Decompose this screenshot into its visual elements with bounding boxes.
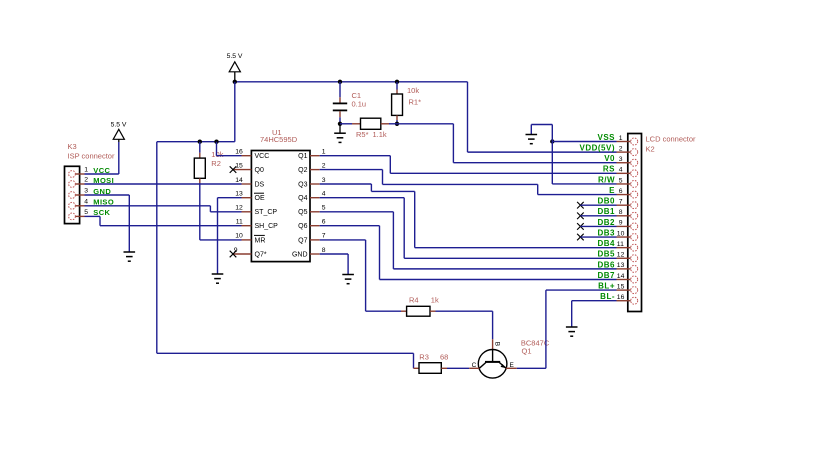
svg-text:K3: K3 [68, 142, 77, 151]
wire BL- to ground [572, 300, 617, 302]
svg-text:DB1: DB1 [597, 207, 615, 216]
wire R4 to base [430, 310, 436, 312]
IC U1 right pin stubs [310, 155, 320, 157]
svg-text:11: 11 [617, 241, 624, 248]
node junction C1/R5 [338, 122, 342, 126]
svg-text:OE: OE [255, 195, 265, 202]
wire Q4 to DB5 [320, 197, 405, 199]
ground U1 GND [342, 274, 354, 276]
svg-text:1: 1 [322, 149, 326, 156]
resistor R4 [407, 306, 430, 316]
wire OE to ground [218, 197, 242, 199]
svg-text:11: 11 [236, 219, 243, 226]
resistor R2 [194, 158, 205, 178]
wire MOSI to DS [85, 183, 242, 185]
svg-text:1.1k: 1.1k [373, 130, 387, 139]
svg-text:Q4: Q4 [298, 195, 307, 202]
svg-text:10: 10 [617, 230, 625, 237]
node junction C1 top [338, 80, 342, 84]
capacitor C1 [333, 102, 347, 104]
svg-text:DB0: DB0 [597, 197, 615, 206]
svg-text:SH_CP: SH_CP [255, 223, 279, 230]
connector K2 pins [631, 138, 638, 145]
svg-text:68: 68 [440, 353, 448, 362]
wire R5 right lead [381, 123, 389, 125]
wire 5.5V rail drop [234, 82, 236, 142]
wire emitter to BL+ [517, 367, 546, 369]
node junction VCC branch [214, 140, 218, 144]
wire Q6 to DB7 [320, 225, 380, 227]
wire C1 top lead [339, 82, 341, 98]
svg-text:Q5: Q5 [298, 209, 307, 216]
svg-text:DB5: DB5 [597, 250, 615, 259]
overline OE [254, 192, 264, 194]
node junction VSS [550, 139, 554, 143]
wire VDD(5V) net [467, 82, 469, 152]
svg-text:6: 6 [619, 188, 623, 195]
resistor R3 [419, 363, 441, 374]
power +5.5V symbol (top) [229, 62, 240, 72]
ground K3 [124, 251, 136, 253]
power +5.5V symbol (K3) [113, 129, 124, 139]
svg-text:1k: 1k [431, 295, 439, 304]
svg-text:DB3: DB3 [597, 228, 615, 237]
wire VCC to U1 pin16 [216, 142, 218, 156]
connector K3 body [65, 166, 80, 223]
svg-text:RS: RS [603, 165, 615, 174]
svg-text:9: 9 [619, 220, 623, 227]
svg-text:R4: R4 [409, 295, 419, 304]
svg-text:Q7: Q7 [298, 237, 307, 244]
svg-text:K2: K2 [646, 144, 655, 153]
svg-text:C: C [472, 362, 477, 369]
svg-text:VCC: VCC [255, 153, 270, 160]
svg-text:7: 7 [322, 233, 326, 240]
svg-text:Q2: Q2 [298, 167, 307, 174]
svg-text:3: 3 [322, 177, 326, 184]
wire R2 bottom lead to MR [199, 178, 201, 183]
svg-text:1: 1 [84, 167, 88, 174]
wire GND net K3 [85, 194, 130, 196]
wire R2 top lead [199, 142, 201, 153]
svg-text:Q6: Q6 [298, 223, 307, 230]
wire 5.5V to R3 feed [156, 142, 158, 354]
wire R/W to VSS [551, 142, 553, 184]
svg-text:VSS: VSS [597, 133, 615, 142]
wire 5.5V top rail [235, 81, 468, 83]
wire VSS net [552, 141, 616, 143]
connector K2 body [628, 134, 642, 312]
svg-text:0.1u: 0.1u [352, 100, 367, 109]
svg-text:V0: V0 [604, 154, 615, 163]
svg-text:4: 4 [619, 167, 623, 174]
svg-text:5: 5 [84, 209, 88, 216]
svg-text:R1*: R1* [409, 97, 422, 106]
wire R1 top lead [396, 82, 398, 90]
node junction R1/R5 [395, 122, 399, 126]
IC U1 left pin stubs [242, 155, 252, 157]
connector K3 pins [69, 171, 76, 178]
ground OE [212, 273, 224, 275]
wire SCK to SH_CP [85, 215, 101, 217]
svg-text:Q7*: Q7* [255, 251, 267, 258]
IC U1 body [251, 151, 310, 262]
svg-text:15: 15 [617, 283, 625, 290]
svg-text:R5*: R5* [356, 130, 369, 139]
node junction R2 top [198, 140, 202, 144]
svg-text:8: 8 [619, 209, 623, 216]
transistor pin stubs [469, 367, 479, 369]
resistor R1 [392, 94, 403, 115]
svg-text:DB2: DB2 [597, 218, 615, 227]
node junction R1 top [395, 80, 399, 84]
svg-text:DB7: DB7 [597, 271, 615, 280]
overline MR [254, 234, 265, 236]
svg-text:13: 13 [617, 262, 625, 269]
svg-text:4: 4 [322, 191, 326, 198]
svg-text:ISP connector: ISP connector [68, 151, 115, 160]
svg-text:8: 8 [322, 247, 326, 254]
svg-text:10k: 10k [211, 150, 223, 159]
wire V0 net [397, 123, 453, 125]
svg-text:5: 5 [322, 205, 326, 212]
svg-text:3: 3 [619, 156, 623, 163]
wire Q3 to DB4 [320, 183, 372, 185]
svg-text:12: 12 [617, 252, 625, 259]
svg-text:DB4: DB4 [597, 239, 615, 248]
svg-text:R/W: R/W [598, 175, 615, 184]
svg-text:B: B [493, 342, 500, 346]
wire VCC net K3 [118, 142, 120, 174]
wire Q2 to E [320, 169, 383, 171]
svg-text:15: 15 [235, 162, 243, 169]
wire Q7 to R4 [320, 239, 366, 241]
svg-text:1: 1 [619, 135, 623, 142]
no-connect X pin15 [230, 166, 237, 173]
svg-text:MR: MR [255, 237, 266, 244]
svg-text:GND: GND [292, 251, 308, 258]
wire C1 bottom lead [339, 111, 341, 117]
svg-text:14: 14 [617, 273, 625, 280]
ground VSS [526, 134, 538, 136]
svg-text:2: 2 [84, 177, 88, 184]
wire Q1 to RS [320, 155, 391, 157]
transistor Q1 (BC847C) [478, 350, 507, 379]
wire R1 bottom lead [396, 115, 398, 120]
ground below C1 [339, 124, 341, 133]
wire U1 GND to ground [320, 253, 348, 255]
ground BL- [566, 326, 578, 328]
svg-text:BL-: BL- [600, 292, 615, 301]
no-connect X DB0-DB3 [577, 202, 584, 209]
svg-text:3: 3 [84, 188, 88, 195]
resistor R5 [361, 118, 381, 129]
svg-text:5: 5 [619, 177, 623, 184]
wire Q5 to DB6 [320, 211, 394, 213]
svg-text:Q0: Q0 [255, 167, 264, 174]
svg-text:BL+: BL+ [598, 282, 615, 291]
svg-text:2: 2 [619, 145, 623, 152]
svg-text:Q1: Q1 [298, 153, 307, 160]
svg-text:6: 6 [322, 219, 326, 226]
svg-text:10: 10 [235, 233, 243, 240]
svg-text:DS: DS [255, 181, 265, 188]
svg-text:Q1: Q1 [522, 346, 532, 355]
svg-text:7: 7 [619, 198, 623, 205]
svg-text:5.5 V: 5.5 V [227, 53, 243, 60]
svg-text:12: 12 [235, 205, 243, 212]
svg-text:14: 14 [235, 177, 243, 184]
svg-text:VDD(5V): VDD(5V) [579, 144, 615, 153]
svg-text:R3: R3 [419, 353, 429, 362]
svg-text:16: 16 [617, 294, 625, 301]
svg-text:5.5 V: 5.5 V [111, 121, 127, 128]
svg-text:R2: R2 [211, 159, 221, 168]
svg-text:E: E [609, 186, 615, 195]
svg-text:74HC595D: 74HC595D [260, 135, 298, 144]
svg-text:9: 9 [234, 247, 238, 254]
node junction top rail left [233, 80, 237, 84]
svg-text:13: 13 [235, 191, 243, 198]
svg-text:2: 2 [322, 162, 326, 169]
svg-text:LCD connector: LCD connector [646, 134, 697, 143]
no-connect X pin9 [230, 251, 237, 258]
wire R3 to collector [441, 367, 447, 369]
svg-text:ST_CP: ST_CP [255, 209, 278, 216]
wire R5 left lead [340, 123, 352, 125]
svg-text:E: E [510, 362, 515, 369]
svg-text:Q3: Q3 [298, 181, 307, 188]
svg-text:16: 16 [235, 149, 243, 156]
svg-text:DB6: DB6 [597, 260, 615, 269]
svg-text:4: 4 [84, 198, 88, 205]
svg-text:10k: 10k [407, 86, 419, 95]
wire MISO to ST_CP [85, 205, 211, 207]
